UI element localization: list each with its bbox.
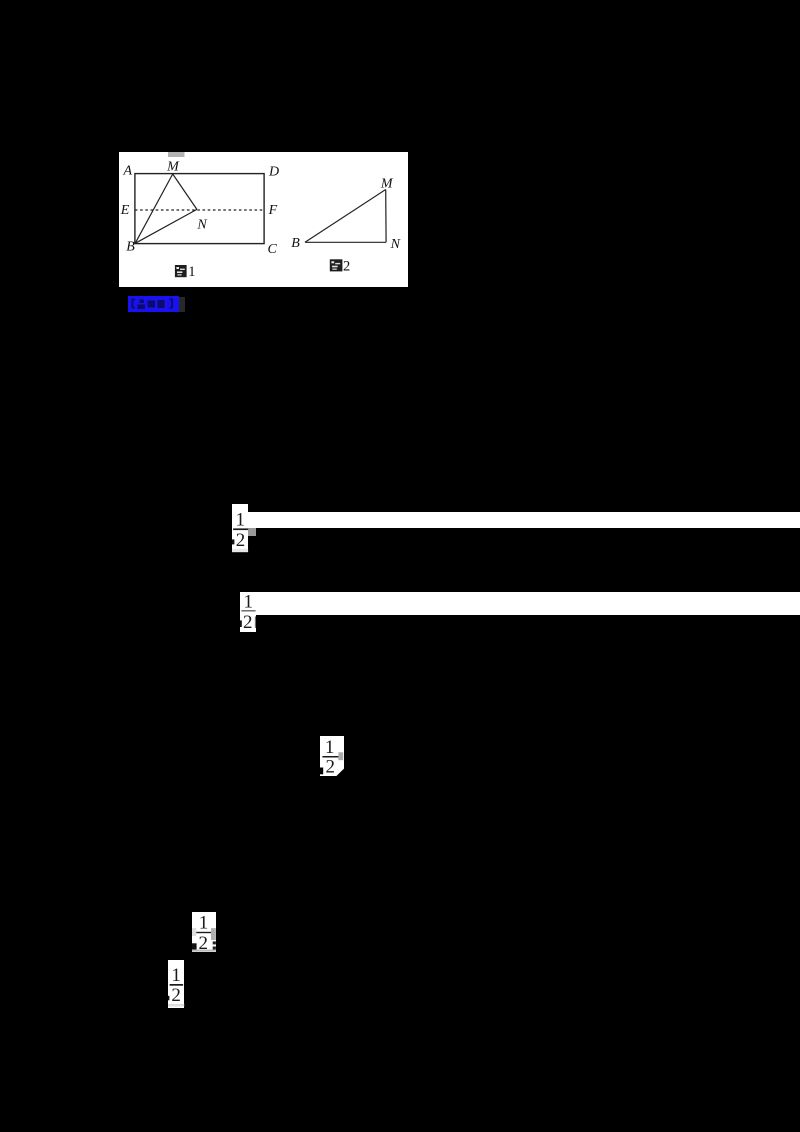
fig1 dashed line EF	[134, 209, 263, 211]
fraction 1/2 (no.2)	[240, 592, 256, 632]
svg-text:2: 2	[236, 529, 246, 550]
svg-text:1: 1	[188, 264, 195, 280]
fraction 1/2 (no.5)	[168, 960, 184, 1008]
svg-text:1: 1	[199, 913, 209, 934]
svg-text:2: 2	[325, 756, 335, 776]
fig1 rectangle ABCD	[134, 174, 263, 244]
gray patch under strip 1	[248, 528, 256, 536]
svg-text:1: 1	[325, 737, 335, 758]
svg-text:F: F	[267, 203, 277, 218]
svg-text:M: M	[166, 160, 180, 175]
svg-text:E: E	[119, 203, 129, 218]
fig2 segment MN	[384, 190, 386, 243]
svg-text:N: N	[196, 218, 207, 233]
white strip line 2	[256, 592, 800, 615]
caption 图2 glyph	[329, 259, 342, 271]
fig2 segment BM	[305, 190, 386, 243]
svg-text:2: 2	[343, 258, 350, 274]
highlighted label dark tail	[179, 297, 186, 312]
fraction 1/2 (no.4)	[192, 912, 216, 952]
svg-text:D: D	[267, 164, 278, 179]
svg-text:B: B	[291, 236, 300, 251]
svg-text:M: M	[379, 177, 393, 192]
caption 图1 glyph	[174, 265, 186, 277]
fraction 1/2 (no.3)	[320, 736, 345, 776]
fig1 segment MN	[172, 174, 196, 209]
fraction 1/2 (no.1)	[232, 504, 248, 552]
highlighted label block (blue)	[128, 296, 179, 312]
svg-text:1: 1	[235, 509, 245, 530]
fig2 segment BN	[305, 241, 386, 243]
svg-text:N: N	[389, 237, 400, 252]
svg-text:2: 2	[243, 612, 253, 632]
gray smudge above M	[168, 152, 185, 157]
svg-text:2: 2	[198, 933, 208, 952]
fig1 segment BM	[135, 174, 173, 243]
svg-text:C: C	[267, 242, 277, 257]
svg-text:A: A	[122, 163, 132, 178]
highlighted label glyph blobs	[128, 296, 179, 312]
fig1 segment BN	[135, 209, 197, 243]
svg-text:B: B	[126, 240, 135, 255]
white strip line 1	[248, 512, 800, 528]
figure panel (white box)	[119, 152, 408, 287]
svg-text:1: 1	[244, 592, 254, 613]
svg-text:1: 1	[171, 965, 181, 986]
svg-text:2: 2	[171, 985, 181, 1006]
